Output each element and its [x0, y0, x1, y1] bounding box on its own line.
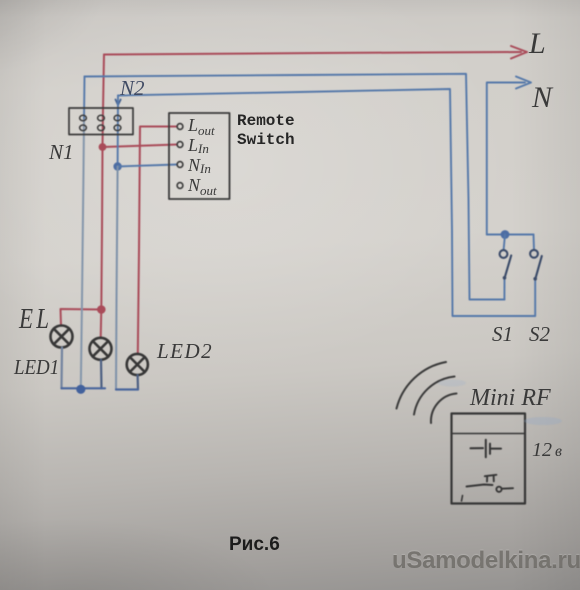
wire branch to L in terminal: [103, 145, 178, 148]
lamp EL: [51, 326, 73, 348]
label L: [529, 27, 546, 61]
wire tap to S2: [533, 235, 536, 250]
pin label L in: [188, 135, 209, 157]
blue smudge above arcs: [438, 380, 466, 387]
arrowhead N: [516, 77, 531, 89]
pin label L out: [188, 115, 215, 139]
watermark uSamodelkina.ru: [392, 547, 580, 575]
wire N blue1: from N1 col1 to switches: [85, 74, 505, 300]
battery B1 12V: [471, 440, 502, 458]
RF wave arc outer: [397, 362, 447, 409]
label S2: [529, 322, 550, 347]
label N2: [120, 76, 145, 101]
remote switch box U1: [169, 113, 230, 199]
label S1: [492, 322, 513, 347]
RF wave arc middle: [414, 377, 455, 415]
Mini RF box: [452, 414, 526, 504]
wire S2 bottom drop: [534, 280, 536, 317]
label N: [532, 81, 552, 115]
label Remote Switch: [237, 112, 295, 149]
pushbutton SB1: [467, 475, 514, 492]
RF wave arc inner: [431, 394, 457, 424]
pen tick inside box: [462, 496, 463, 502]
node switch bus junction: [501, 230, 510, 239]
wire red node down to LED1 lamp top: [100, 310, 103, 338]
wire N2 blue2 horizontal to S2: [118, 89, 535, 316]
arrowhead N2 into terminal block: [116, 100, 121, 106]
wire red node to EL lamp: [61, 309, 102, 326]
label Mini RF: [470, 385, 551, 412]
wire L vertical drop to N1: [103, 55, 105, 148]
label LED1: [14, 355, 59, 380]
node blue junction N in: [113, 162, 121, 170]
wire switch top bus: [487, 234, 534, 236]
wire L line red horizontal: [104, 52, 521, 55]
wire blue2 down to LED2 rail: [116, 167, 118, 390]
Mini RF divider: [452, 433, 526, 435]
switch S2: [530, 250, 542, 281]
node L junction at N1: [99, 143, 107, 151]
wire LED2 lamp bottom: [137, 375, 140, 389]
wire EL lamp bottom: [60, 348, 63, 389]
wire branch to N in terminal: [118, 165, 177, 167]
pin label N in: [188, 155, 211, 177]
terminal block contacts: [80, 115, 121, 130]
wire L out to LED2 lamp (red): [138, 127, 177, 354]
wire LED1 lamp bottom: [100, 360, 103, 389]
node red junction above lamps: [97, 305, 106, 314]
wire tap to S1: [504, 235, 505, 251]
label LED2: [157, 339, 213, 364]
pin L in: [177, 142, 183, 148]
wire blue2 vertical through N1 to node: [117, 96, 119, 167]
wire bottom rail 1 (N): [62, 387, 106, 389]
lamp LED2: [127, 354, 148, 375]
caption Рис.6: [229, 534, 280, 556]
wire N feed with arrow (top right): [487, 83, 525, 235]
wire blue1 vertical through N1 down to lamp rail: [83, 77, 86, 121]
pin label N out: [188, 175, 217, 199]
label 12V: [532, 439, 562, 462]
wire blue1 vertical lower (faint): [81, 120, 84, 389]
pin L out: [177, 124, 183, 130]
terminal block N1: [69, 108, 133, 135]
node rail junction: [76, 385, 85, 394]
wire L from N1 node down to LED1 lamp: [101, 147, 102, 309]
wire bottom rail 2 (N2): [116, 388, 138, 390]
lamp LED1: [90, 338, 112, 360]
pin N in: [177, 162, 183, 168]
arrowhead L: [511, 46, 527, 59]
pin N out: [177, 183, 183, 189]
switch S1: [500, 250, 512, 280]
blue smudge near Mini RF: [524, 417, 562, 425]
label EL: [19, 304, 52, 336]
wire S1 bottom to inner L: [503, 279, 505, 300]
label N1: [49, 140, 74, 165]
